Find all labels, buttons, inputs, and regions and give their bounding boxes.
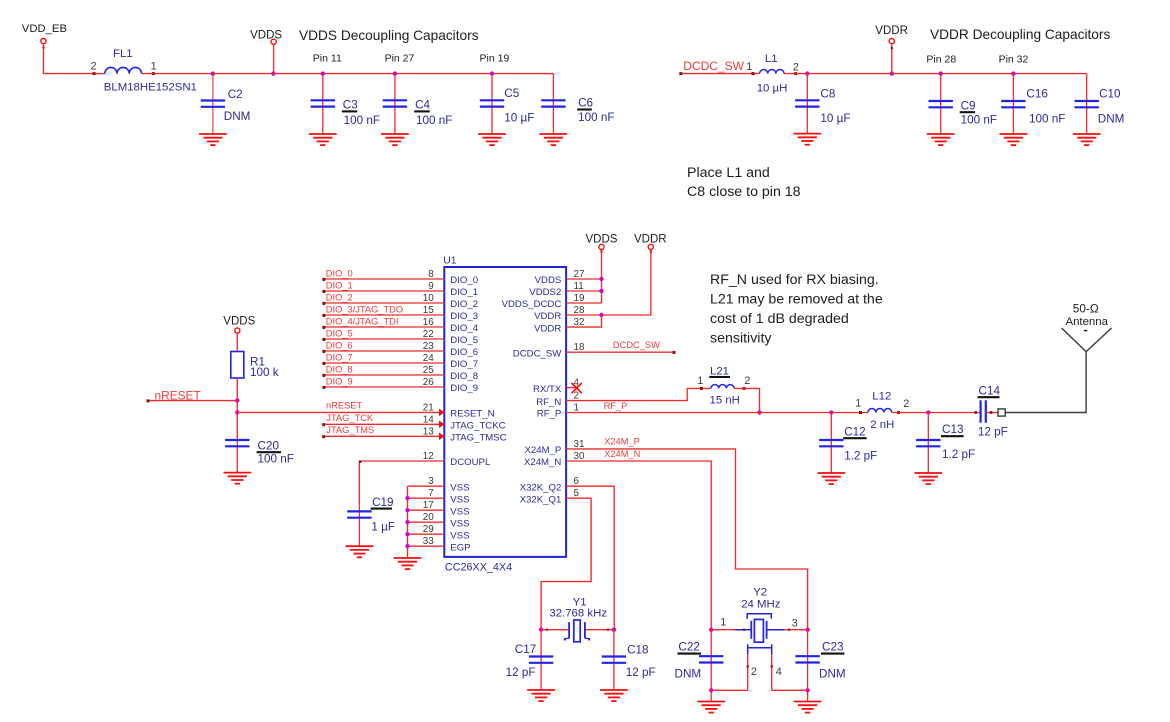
svg-text:C8: C8 <box>820 88 835 101</box>
node VDDS terminal top-left <box>271 39 276 44</box>
svg-text:Pin 32: Pin 32 <box>999 53 1029 65</box>
svg-text:DIO_1: DIO_1 <box>450 287 478 298</box>
svg-text:DIO_4: DIO_4 <box>450 323 478 334</box>
svg-text:DIO_2: DIO_2 <box>450 299 478 310</box>
capacitor C19 <box>358 505 360 546</box>
svg-text:C6: C6 <box>578 96 593 109</box>
wire VSS pin 17 stub <box>408 509 445 511</box>
wire C8 to VDDR node <box>807 73 892 75</box>
svg-text:L21: L21 <box>710 366 729 378</box>
svg-text:DNM: DNM <box>675 667 702 680</box>
svg-text:DIO_1: DIO_1 <box>326 280 353 290</box>
wire pin11 stub <box>566 290 601 292</box>
wire DIO_5 net <box>323 338 445 340</box>
inductor L12 <box>868 409 892 413</box>
svg-text:Pin 28: Pin 28 <box>926 53 956 65</box>
svg-text:VDDS: VDDS <box>586 233 618 245</box>
svg-text:C20: C20 <box>258 439 280 452</box>
svg-text:VDDR: VDDR <box>634 233 667 245</box>
svg-text:12 pF: 12 pF <box>978 425 1008 438</box>
wire pin32 stub <box>566 315 601 327</box>
node antenna port <box>998 409 1005 416</box>
svg-text:1: 1 <box>855 397 861 409</box>
svg-text:8: 8 <box>428 269 434 280</box>
ground under C8 <box>793 133 821 135</box>
svg-text:VDDS_DCDC: VDDS_DCDC <box>502 299 562 310</box>
wire VSS pin 29 stub <box>408 533 445 535</box>
ground under C16 <box>1000 133 1028 135</box>
svg-text:DIO_0: DIO_0 <box>450 275 478 286</box>
wire X32K_Q2 net <box>566 486 614 630</box>
wire DIO_6 net <box>323 350 445 352</box>
svg-text:C9: C9 <box>961 100 976 113</box>
wire Y2 pin4 drop <box>771 655 773 691</box>
svg-text:DCDC_SW: DCDC_SW <box>683 59 744 73</box>
wire C12 to L12 <box>831 412 868 414</box>
svg-text:L21 may be removed at the: L21 may be removed at the <box>710 292 883 308</box>
ground under C4 <box>381 133 409 135</box>
svg-text:3: 3 <box>792 618 798 630</box>
node RX/TX no-connect X <box>566 387 576 389</box>
svg-text:DIO_0: DIO_0 <box>326 268 353 278</box>
svg-text:Y2: Y2 <box>753 586 767 598</box>
wire DIO_9 net <box>323 386 445 388</box>
wire JTAG_TCK net <box>323 423 445 425</box>
svg-text:10 µF: 10 µF <box>504 111 534 124</box>
svg-text:2: 2 <box>903 398 909 410</box>
wire R1 to nRESET node <box>236 378 238 401</box>
svg-text:X24M_N: X24M_N <box>604 449 640 459</box>
svg-text:C18: C18 <box>627 643 648 656</box>
capacitor C22 <box>710 630 712 702</box>
svg-text:VDDR: VDDR <box>534 323 561 334</box>
svg-text:JTAG_TCK: JTAG_TCK <box>326 413 374 423</box>
node input arrow RESET_N <box>439 409 445 417</box>
wire X24M_N net <box>566 461 711 630</box>
svg-text:C22: C22 <box>678 641 699 654</box>
node Y2 pin3 junction <box>805 628 809 632</box>
svg-text:C14: C14 <box>979 384 1001 397</box>
svg-text:C3: C3 <box>343 98 358 111</box>
inductor L1 <box>760 70 784 74</box>
svg-text:2: 2 <box>793 62 799 74</box>
svg-text:L1: L1 <box>765 53 778 65</box>
antenna <box>1062 328 1112 352</box>
svg-text:JTAG_TCKC: JTAG_TCKC <box>450 421 505 432</box>
svg-text:DNM: DNM <box>819 667 846 680</box>
svg-text:100 nF: 100 nF <box>961 113 997 126</box>
svg-text:VDDS: VDDS <box>535 275 562 286</box>
svg-text:X24M_N: X24M_N <box>524 457 561 468</box>
ground under C9 <box>927 133 955 135</box>
wire DCDC_SW pin18 net <box>566 351 675 353</box>
capacitor C14 <box>979 400 981 422</box>
node C16 junction <box>1011 71 1015 75</box>
svg-text:sensitivity: sensitivity <box>710 331 772 347</box>
svg-text:DIO_2: DIO_2 <box>326 292 353 302</box>
node C9 junction <box>939 71 943 75</box>
svg-text:DNM: DNM <box>1098 112 1125 125</box>
node C22 bottom junction <box>709 688 713 692</box>
wire VSS pin 7 stub <box>408 497 445 499</box>
svg-text:2 nH: 2 nH <box>870 419 894 431</box>
svg-text:C19: C19 <box>372 496 393 509</box>
wire DIO_3/JTAG_TDO net <box>323 314 445 316</box>
svg-text:C2: C2 <box>228 88 243 101</box>
node VDDR junction pin28 <box>599 313 603 317</box>
svg-text:DCOUPL: DCOUPL <box>450 457 491 468</box>
svg-text:VDDS Decoupling Capacitors: VDDS Decoupling Capacitors <box>299 28 479 43</box>
node VDDR terminal above U1 <box>648 244 653 249</box>
svg-text:VDDS: VDDS <box>223 316 255 328</box>
node Y1 left junction <box>539 628 543 632</box>
svg-text:C8 close to pin 18: C8 close to pin 18 <box>687 184 801 200</box>
svg-text:VSS: VSS <box>450 482 469 493</box>
wire antenna feed <box>1005 352 1086 413</box>
wire VDDR riser <box>566 250 651 316</box>
ground under C20 <box>223 472 251 474</box>
wire RF_P net <box>566 412 831 414</box>
capacitor C9 <box>940 74 942 134</box>
wire Y2 pin4 to C23 <box>772 689 808 691</box>
node input arrow JTAG_TMSC <box>439 433 445 441</box>
resistor R1 <box>231 352 244 379</box>
wire RF_N net <box>566 388 711 400</box>
wire X24M_P net <box>566 449 808 630</box>
capacitor C10 <box>1086 74 1088 134</box>
svg-text:C4: C4 <box>415 98 430 111</box>
svg-text:10 µH: 10 µH <box>757 82 788 94</box>
svg-text:U1: U1 <box>443 255 457 266</box>
svg-text:15 nH: 15 nH <box>710 394 740 406</box>
wire VSS pin 20 stub <box>408 521 445 523</box>
svg-text:2: 2 <box>91 61 97 73</box>
svg-text:24: 24 <box>423 353 434 364</box>
wire DIO_7 net <box>323 362 445 364</box>
wire DIO_0 net <box>323 278 445 280</box>
svg-text:26: 26 <box>423 377 434 388</box>
ground under C13 <box>914 472 942 474</box>
svg-text:DIO_7: DIO_7 <box>450 359 478 370</box>
svg-text:JTAG_TMSC: JTAG_TMSC <box>450 433 506 444</box>
svg-text:DIO_9: DIO_9 <box>326 376 353 386</box>
wire C13 to C14 <box>928 412 979 414</box>
capacitor C23 <box>807 630 809 702</box>
capacitor C17 <box>540 630 542 690</box>
svg-text:DIO_5: DIO_5 <box>450 335 478 346</box>
ground under C18 <box>600 689 628 691</box>
svg-text:1: 1 <box>151 60 157 72</box>
node C12 junction <box>829 410 833 414</box>
wire L21 to RF_P <box>734 388 759 412</box>
svg-text:VSS: VSS <box>450 506 469 517</box>
svg-text:16: 16 <box>423 317 434 328</box>
svg-text:100 nF: 100 nF <box>416 114 452 127</box>
wire RESET_N to U1 <box>237 411 444 413</box>
svg-text:C17: C17 <box>515 643 536 656</box>
svg-text:VDDR: VDDR <box>534 311 561 322</box>
node RF_P junction L21 <box>757 410 761 414</box>
capacitor C12 <box>830 413 832 474</box>
svg-text:VDDR Decoupling Capacitors: VDDR Decoupling Capacitors <box>930 27 1110 42</box>
svg-text:RF_P: RF_P <box>604 401 628 411</box>
ground under C3 <box>309 133 337 135</box>
ground under C12 <box>817 472 845 474</box>
ground under VSS bus <box>394 557 422 559</box>
node VDDR junction <box>890 71 894 75</box>
svg-text:VSS: VSS <box>450 530 469 541</box>
svg-text:RESET_N: RESET_N <box>450 409 494 420</box>
wire DIO_1 net <box>323 290 445 292</box>
ground under C23 <box>794 701 822 703</box>
wire Y2 pin2 drop <box>747 655 749 691</box>
svg-text:RF_N: RF_N <box>536 397 561 408</box>
svg-text:DIO_3: DIO_3 <box>450 311 478 322</box>
node C2 junction <box>211 71 215 75</box>
svg-text:RF_N used for RX biasing.: RF_N used for RX biasing. <box>710 272 879 288</box>
wire DCOUPL net <box>359 461 444 505</box>
svg-text:DIO_6: DIO_6 <box>326 340 353 350</box>
svg-text:Pin 11: Pin 11 <box>313 53 342 65</box>
svg-text:DIO_3/JTAG_TDO: DIO_3/JTAG_TDO <box>326 304 403 314</box>
svg-text:L12: L12 <box>872 391 891 403</box>
capacitor C5 <box>491 74 493 134</box>
node C8 junction <box>805 71 809 75</box>
op-amp U1 body <box>444 267 566 557</box>
svg-text:100 k: 100 k <box>250 366 279 379</box>
svg-text:4: 4 <box>776 666 782 678</box>
node VDDS terminal above U1 <box>599 244 604 249</box>
wire VDDS to R1 <box>236 333 238 351</box>
svg-text:DCDC_SW: DCDC_SW <box>613 340 660 350</box>
node VSS bus junction 20 <box>405 520 409 524</box>
svg-text:VDDS2: VDDS2 <box>529 287 561 298</box>
svg-text:1: 1 <box>697 375 703 387</box>
svg-text:DNM: DNM <box>224 110 251 123</box>
node VSS bus junction 17 <box>405 508 409 512</box>
svg-text:1: 1 <box>746 61 752 73</box>
svg-text:1.2 pF: 1.2 pF <box>844 449 877 462</box>
capacitor C6 <box>552 74 554 134</box>
wire L12 to C13 <box>892 412 929 414</box>
svg-text:C23: C23 <box>822 641 843 654</box>
svg-text:32.768 kHz: 32.768 kHz <box>549 607 607 619</box>
svg-text:nRESET: nRESET <box>326 401 362 411</box>
svg-text:JTAG_TMS: JTAG_TMS <box>326 425 374 435</box>
svg-text:DIO_9: DIO_9 <box>450 383 478 394</box>
ground under C5 <box>478 133 506 135</box>
wire VSS pin 3 stub <box>408 485 445 487</box>
capacitor C16 <box>1012 74 1014 134</box>
wire VDDS riser <box>601 250 603 304</box>
svg-text:1: 1 <box>720 616 726 628</box>
svg-text:DCDC_SW: DCDC_SW <box>513 348 562 359</box>
svg-text:50-Ω: 50-Ω <box>1073 301 1099 315</box>
ground under C10 <box>1073 133 1101 135</box>
svg-text:DIO_5: DIO_5 <box>326 328 353 338</box>
wire pin27 stub <box>566 278 601 280</box>
svg-text:EGP: EGP <box>450 542 470 553</box>
svg-text:Pin 27: Pin 27 <box>385 53 415 65</box>
wire nRESET jog <box>236 401 238 413</box>
svg-text:1 µF: 1 µF <box>371 521 395 534</box>
node VDDS junction <box>271 71 275 75</box>
svg-text:DIO_4/JTAG_TDI: DIO_4/JTAG_TDI <box>326 316 399 326</box>
node VDDS terminal above R1 <box>235 328 240 333</box>
wire Y2 pin2 to C22 <box>711 689 748 691</box>
svg-text:VSS: VSS <box>450 518 469 529</box>
svg-text:100 nF: 100 nF <box>1029 112 1065 125</box>
svg-text:Place L1 and: Place L1 and <box>687 165 770 181</box>
node C13 junction <box>926 410 930 414</box>
svg-text:2: 2 <box>744 375 750 387</box>
wire C20 drop <box>236 412 238 440</box>
node VDDS junction pin11 <box>599 289 603 293</box>
ground under C2 <box>199 133 227 135</box>
svg-text:23: 23 <box>423 341 434 352</box>
wire VSS pin 33 stub <box>408 545 445 547</box>
svg-text:10: 10 <box>423 293 434 304</box>
wire X32K_Q1 net <box>541 498 591 630</box>
ground under C22 <box>697 701 725 703</box>
wire VSS bus <box>407 486 409 558</box>
svg-text:CC26XX_4X4: CC26XX_4X4 <box>445 562 512 574</box>
wire C2 to VDDS node <box>213 73 274 75</box>
svg-text:RF_P: RF_P <box>537 409 562 420</box>
svg-text:100 nF: 100 nF <box>578 111 614 124</box>
svg-text:nRESET: nRESET <box>155 388 201 402</box>
svg-text:2: 2 <box>751 666 757 678</box>
svg-text:10 µF: 10 µF <box>820 112 850 125</box>
inductor L21 <box>711 385 734 389</box>
svg-text:DIO_8: DIO_8 <box>450 371 478 382</box>
node C4 junction <box>393 71 397 75</box>
wire pin19 stub <box>566 302 601 304</box>
node RESET junction <box>235 410 239 414</box>
svg-text:VDD_EB: VDD_EB <box>22 23 67 35</box>
svg-text:24 MHz: 24 MHz <box>741 598 781 610</box>
node C5 junction <box>490 71 494 75</box>
svg-text:100 nF: 100 nF <box>258 453 294 466</box>
svg-text:X32K_Q2: X32K_Q2 <box>520 482 562 493</box>
wire L1 to C8 node <box>784 73 807 75</box>
node input arrow JTAG_TCKC <box>439 421 445 429</box>
wire DIO_8 net <box>323 374 445 376</box>
svg-text:VDDR: VDDR <box>875 25 908 37</box>
svg-text:X32K_Q1: X32K_Q1 <box>520 494 562 505</box>
svg-text:Antenna: Antenna <box>1066 316 1109 328</box>
svg-text:C10: C10 <box>1099 87 1121 100</box>
node VDDS junction pin27 <box>599 277 603 281</box>
ground under C17 <box>527 689 555 691</box>
svg-text:9: 9 <box>428 281 434 292</box>
wire DCDC_SW net <box>680 73 760 75</box>
node VSS bus junction 7 <box>405 496 409 500</box>
node VDD_EB terminal <box>41 39 46 44</box>
node VDDR terminal top-right <box>889 39 894 44</box>
ferrite bead FL1 <box>105 67 142 73</box>
wire DIO_2 net <box>323 302 445 304</box>
svg-text:DIO_6: DIO_6 <box>450 347 478 358</box>
svg-text:C5: C5 <box>504 87 519 100</box>
svg-text:12 pF: 12 pF <box>626 666 656 679</box>
svg-text:1.2 pF: 1.2 pF <box>942 448 975 461</box>
svg-text:15: 15 <box>423 305 434 316</box>
capacitor C3 <box>322 74 324 134</box>
node C3 junction <box>321 71 325 75</box>
svg-text:FL1: FL1 <box>113 48 133 60</box>
ground under C19 <box>346 545 374 547</box>
capacitor C13 <box>927 413 929 474</box>
node VSS bus junction 29 <box>405 532 409 536</box>
node C23 bottom junction <box>805 688 809 692</box>
svg-text:C12: C12 <box>844 425 865 438</box>
node Y2 pin1 junction <box>709 628 713 632</box>
wire VDD_EB to FL1 <box>44 44 105 74</box>
svg-text:DIO_8: DIO_8 <box>326 364 353 374</box>
svg-text:C16: C16 <box>1026 87 1047 100</box>
svg-text:BLM18HE152SN1: BLM18HE152SN1 <box>104 82 197 94</box>
capacitor C8 <box>806 74 808 134</box>
wire VDDR rail <box>892 73 1087 75</box>
svg-text:100 nF: 100 nF <box>344 114 380 127</box>
svg-text:DIO_7: DIO_7 <box>326 352 353 362</box>
svg-text:Pin 19: Pin 19 <box>480 53 510 65</box>
wire DIO_4/JTAG_TDI net <box>323 326 445 328</box>
svg-text:C13: C13 <box>942 423 963 436</box>
svg-text:RX/TX: RX/TX <box>533 384 562 395</box>
svg-text:X24M_P: X24M_P <box>525 445 562 456</box>
node nRESET junction <box>235 398 239 402</box>
node Y1 right junction <box>612 628 616 632</box>
capacitor C20 <box>236 440 238 473</box>
capacitor C18 <box>613 630 615 690</box>
wire VDDS rail <box>273 73 553 75</box>
svg-text:X24M_P: X24M_P <box>604 436 640 446</box>
capacitor C4 <box>394 74 396 134</box>
svg-text:25: 25 <box>423 365 434 376</box>
wire JTAG_TMS net <box>323 435 445 437</box>
wire FL1 to C2 node <box>142 73 213 75</box>
svg-text:12 pF: 12 pF <box>506 666 536 679</box>
node VSS bus junction 33 <box>405 544 409 548</box>
svg-text:cost of 1 dB degraded: cost of 1 dB degraded <box>710 311 849 327</box>
ground under C6 <box>540 133 568 135</box>
capacitor C2 <box>212 74 214 134</box>
wire nRESET net <box>147 400 237 402</box>
svg-text:VSS: VSS <box>450 494 469 505</box>
svg-text:22: 22 <box>423 329 434 340</box>
svg-text:VDDS: VDDS <box>250 29 282 41</box>
